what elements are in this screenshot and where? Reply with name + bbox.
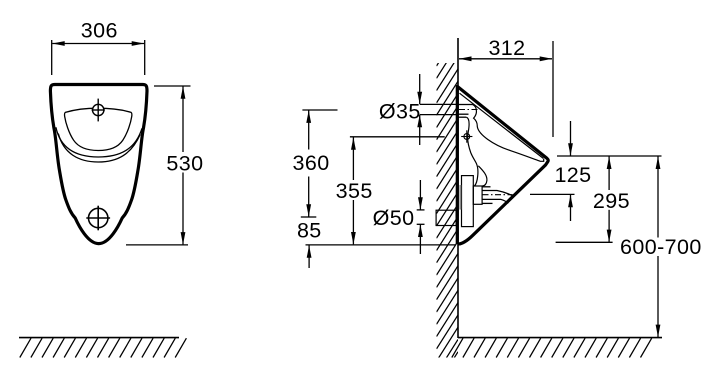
svg-text:295: 295 bbox=[593, 189, 630, 213]
svg-text:85: 85 bbox=[297, 219, 322, 243]
svg-text:312: 312 bbox=[488, 36, 525, 60]
svg-text:530: 530 bbox=[166, 151, 203, 175]
svg-text:306: 306 bbox=[81, 19, 118, 43]
svg-text:Ø35: Ø35 bbox=[379, 99, 421, 123]
svg-text:Ø50: Ø50 bbox=[373, 206, 415, 230]
svg-text:600-700: 600-700 bbox=[620, 235, 702, 259]
svg-text:360: 360 bbox=[293, 151, 330, 175]
svg-text:355: 355 bbox=[336, 179, 373, 203]
svg-text:125: 125 bbox=[554, 163, 591, 187]
